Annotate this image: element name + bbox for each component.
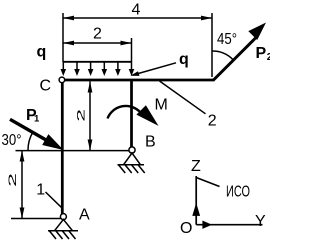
thin line P1 level to B (16, 150, 130, 152)
svg-text:ИСО: ИСО (226, 184, 250, 201)
label 2 beam leader (160, 81, 206, 114)
force P1 shaft (10, 119, 48, 141)
pin B circle (129, 147, 135, 153)
moment M head (136, 105, 158, 126)
column A-C (element 1) (61, 80, 64, 216)
dim 2 mid up arrow (88, 82, 93, 93)
support B hatch (119, 165, 145, 173)
force P2 head (248, 23, 266, 41)
svg-text:45°: 45° (217, 31, 237, 48)
axis Y line (196, 224, 262, 226)
support B ground line (118, 164, 145, 166)
extension line left (62, 13, 64, 62)
svg-text:q: q (37, 44, 47, 61)
svg-text:2: 2 (208, 112, 217, 129)
svg-text:2: 2 (6, 173, 18, 187)
force P1 head (42, 134, 63, 150)
axis Z arrow (192, 203, 200, 216)
member beam-B (130, 80, 133, 150)
30 deg arc (28, 132, 33, 150)
svg-text:B: B (145, 134, 156, 151)
dim 2 left vertical line (21, 151, 23, 219)
distributed load top line (63, 61, 132, 63)
dimension 2 top line (63, 42, 132, 44)
support A ground line (48, 230, 78, 232)
svg-text:A: A (79, 207, 90, 224)
force P2 shaft (213, 38, 256, 81)
moment M arc (108, 106, 141, 119)
svg-text:1: 1 (34, 114, 40, 125)
load arrow 4 (102, 62, 108, 76)
support B triangle (124, 153, 141, 165)
pin A circle (60, 214, 66, 220)
bottom tick line (11, 218, 61, 220)
beam CB-corner (element 2) (62, 79, 214, 82)
dim 2 left up arrow (20, 151, 25, 162)
svg-text:q: q (179, 51, 189, 68)
svg-text:C: C (40, 77, 52, 94)
dim 4 right arrow (201, 16, 212, 21)
support A triangle (55, 219, 73, 230)
45 deg arc (212, 51, 233, 60)
svg-text:Y: Y (255, 213, 266, 230)
svg-text:1: 1 (36, 182, 45, 199)
load arrow 1 (61, 62, 67, 76)
dim 2 left down arrow (20, 208, 25, 219)
svg-text:2: 2 (267, 52, 270, 63)
hinge C (59, 77, 65, 83)
dim 2 top left arrow (63, 41, 74, 46)
ISO leader (196, 178, 219, 187)
dim 2 mid vertical line (89, 82, 91, 151)
axis Y arrow (202, 221, 212, 229)
svg-text:Z: Z (191, 158, 201, 175)
svg-text:M: M (155, 97, 168, 114)
q leader arrow (130, 71, 139, 76)
load arrow 5 (115, 62, 121, 76)
axis Z line (195, 176, 197, 225)
svg-text:30°: 30° (2, 132, 22, 149)
svg-text:P: P (256, 45, 267, 62)
svg-text:2: 2 (75, 109, 87, 122)
load arrow 6 (129, 62, 135, 76)
label 1 leader (46, 192, 62, 207)
dim 2 top right arrow (121, 41, 132, 46)
svg-text:O: O (180, 220, 192, 237)
dim 4 left arrow (63, 16, 74, 21)
dim 2 mid down arrow (88, 140, 93, 151)
extension line right (211, 13, 213, 77)
load arrow 2 (74, 62, 80, 76)
load arrow 3 (88, 62, 94, 76)
dimension 4 line (63, 17, 212, 19)
support A hatch (50, 231, 76, 239)
svg-text:2: 2 (93, 26, 102, 43)
svg-text:4: 4 (132, 2, 141, 19)
extension line q right (131, 38, 133, 62)
q leader line (133, 63, 176, 75)
